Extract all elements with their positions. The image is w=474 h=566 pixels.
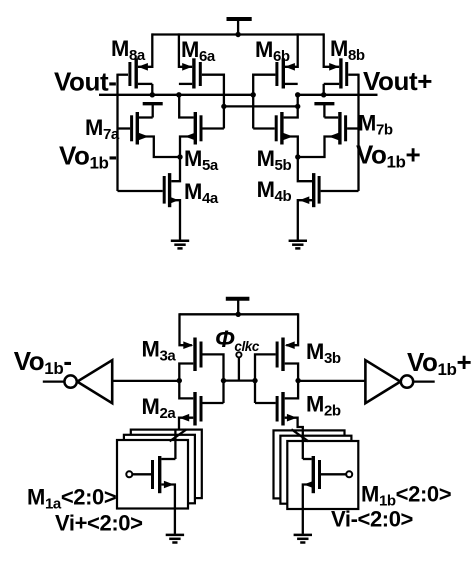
- input device stack M1b boxes: [274, 430, 359, 509]
- svg-text:Vout+: Vout+: [363, 66, 432, 96]
- transistor M3b (PMOS): [255, 313, 298, 380]
- transistor M1b (NMOS, in box): [303, 456, 352, 534]
- label M3a: [142, 337, 177, 365]
- bus slash marker (left): [170, 429, 187, 441]
- label Vo1b- (first stage output): [14, 346, 72, 378]
- label phi_clkc: [215, 326, 260, 354]
- node out1b: [295, 378, 300, 383]
- node tail B: [295, 154, 300, 159]
- ground (M1b source): [294, 535, 312, 543]
- inverter U2 (drives Vo1b+): [365, 360, 434, 403]
- power supply VDD symbol at M7b drain: [314, 104, 334, 118]
- label Vi-<2:0>: [331, 507, 413, 532]
- wire M8b source to VDD rail: [324, 33, 340, 66]
- label Vo1b+ (first stage output): [407, 347, 472, 379]
- transistor M5a (NMOS): [179, 96, 224, 157]
- transistor M4b (NMOS): [298, 157, 359, 240]
- wire M6a source to VDD rail: [179, 33, 192, 66]
- label M7a: [85, 115, 120, 143]
- input device stack M1a boxes: [117, 430, 202, 509]
- power supply VDD symbol (first stage): [226, 299, 250, 315]
- ground (M4b source): [289, 241, 307, 249]
- svg-text:M1a<2:0>: M1a<2:0>: [27, 485, 116, 513]
- transistor M5b (NMOS): [253, 95, 298, 157]
- node tail A: [177, 154, 182, 159]
- power supply VDD symbol (top circuit): [227, 19, 252, 35]
- label M1a<2:0>: [27, 485, 116, 513]
- label Vi+<2:0>: [55, 511, 143, 536]
- svg-text:Vout-: Vout-: [54, 67, 117, 97]
- wire VDD rail (first stage): [180, 312, 299, 317]
- label M3b: [306, 339, 341, 367]
- svg-text:Vo1b-: Vo1b-: [59, 141, 117, 173]
- label M4a: [184, 179, 219, 207]
- label M5a: [184, 146, 219, 174]
- wire VDD rail (top circuit): [152, 32, 323, 37]
- transistor M7b (NMOS): [298, 112, 359, 157]
- transistor M8b (PMOS): [324, 58, 359, 95]
- wire M2b gate drop: [255, 381, 276, 403]
- transistor M4a (NMOS): [118, 157, 181, 240]
- wire M8a source to VDD rail: [138, 33, 152, 66]
- wire M6b source to VDD rail: [285, 33, 298, 66]
- transistor M7a (NMOS): [118, 112, 181, 157]
- ground (M1a source): [166, 535, 184, 543]
- inverter U1 (drives Vo1b-): [43, 360, 112, 403]
- ground (M4a source): [171, 241, 189, 249]
- label Vout-: [54, 67, 117, 97]
- label M2b: [306, 392, 341, 420]
- svg-text:M1b<2:0>: M1b<2:0>: [361, 482, 451, 510]
- wire M2a source into M1a stack: [174, 430, 176, 459]
- label M8b: [330, 36, 365, 64]
- wire Vout+ rail: [295, 92, 378, 97]
- node out1a: [177, 378, 182, 383]
- label M6a: [181, 37, 216, 65]
- transistor M8a (PMOS): [118, 58, 153, 95]
- label M1b<2:0>: [361, 482, 451, 510]
- wire Vo1b+ net vertical (right): [357, 74, 359, 191]
- wire Vo1b- net vertical (left): [116, 74, 118, 191]
- transistor M2b (NMOS): [277, 381, 303, 459]
- label Vout+: [363, 66, 432, 96]
- wire out1a to inverter: [112, 380, 179, 382]
- power supply VDD symbol at M7a drain: [143, 104, 163, 118]
- wire out1b to inverter: [298, 380, 365, 382]
- svg-text:Vi+<2:0>: Vi+<2:0>: [55, 511, 143, 536]
- transistor M6b (PMOS): [253, 58, 298, 95]
- bus slash marker (right): [291, 429, 308, 441]
- terminal phi_clkc (clock input): [236, 352, 241, 380]
- label M5b: [257, 146, 292, 174]
- transistor M6a (PMOS): [179, 58, 224, 106]
- label M4b: [257, 177, 292, 205]
- svg-text:Vi-<2:0>: Vi-<2:0>: [331, 507, 413, 532]
- wire clock net: [221, 378, 258, 383]
- label M2a: [142, 394, 177, 422]
- label M7b: [358, 111, 393, 139]
- transistor M3a (PMOS): [179, 313, 223, 380]
- label Vo1b+ (second stage input, right): [356, 140, 421, 172]
- wire M2a gate drop: [203, 381, 224, 403]
- wire M2b source into M1b stack: [302, 430, 304, 459]
- transistor M1a (NMOS, in box): [126, 456, 175, 534]
- svg-text:Vo1b-: Vo1b-: [14, 346, 72, 378]
- wire Vout- rail: [99, 92, 256, 97]
- label Vo1b- (second stage input, left): [59, 141, 117, 173]
- transistor M2a (NMOS): [175, 381, 201, 459]
- label M6b: [255, 37, 290, 65]
- label M8a: [111, 36, 146, 64]
- wire Vout+ cross link: [221, 95, 300, 109]
